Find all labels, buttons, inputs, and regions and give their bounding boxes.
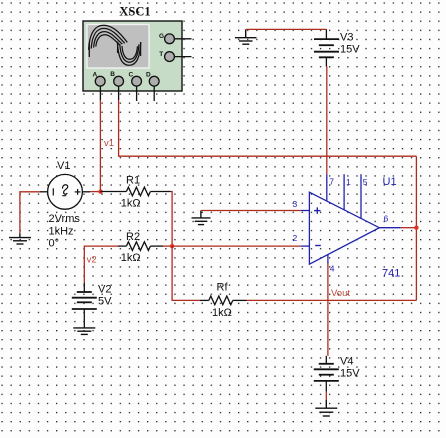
op-amp pin number 4: [330, 264, 335, 274]
svg-text:1kΩ: 1kΩ: [212, 307, 232, 319]
svg-text:T: T: [159, 51, 163, 58]
svg-text:5: 5: [363, 177, 368, 187]
wire: R2 right to junction: [163, 245, 172, 247]
resistor R1: [101, 187, 171, 196]
oscilloscope terminal D: [146, 71, 159, 86]
svg-text:741: 741: [382, 268, 400, 280]
ground (V4): [315, 400, 337, 416]
net label v2: [87, 255, 97, 266]
oscilloscope screen waveforms: [89, 25, 141, 65]
op-amp pin number 5: [363, 177, 368, 187]
svg-text:V3: V3: [340, 32, 353, 44]
V3 reference label: [340, 32, 353, 44]
wire: Rf right to output: [247, 299, 417, 301]
V3 value label: [340, 44, 360, 56]
svg-text:C: C: [129, 71, 134, 78]
stub wire from terminal A: [99, 86, 101, 100]
svg-text:Vout: Vout: [331, 288, 350, 299]
ground (non-inverting input): [192, 211, 211, 225]
wire: output right vertical: [415, 156, 417, 300]
svg-text:V2: V2: [98, 284, 111, 296]
op-amp pin number 6: [384, 214, 389, 224]
battery V3: [314, 29, 339, 66]
oscilloscope XSC1 body: [83, 21, 182, 91]
wire: V1 minus to ground: [20, 192, 40, 234]
wire: op-amp pin 6 to output node: [401, 227, 417, 229]
oscilloscope XSC1 label: [119, 5, 150, 19]
junction node inverting input: [170, 244, 174, 248]
svg-text:1kΩ: 1kΩ: [121, 198, 141, 210]
svg-text:A: A: [93, 72, 98, 79]
svg-text:1: 1: [346, 177, 351, 187]
wire: node v2 up and right to R2: [84, 246, 118, 283]
wire: ground to V3 top: [246, 28, 327, 30]
svg-text:4: 4: [330, 264, 335, 274]
wire: V3 down to op-amp pin 7: [326, 67, 328, 175]
ground (V1): [9, 234, 31, 244]
oscilloscope screen: [87, 25, 149, 69]
wire: V1 plus to node v1: [90, 191, 100, 193]
svg-text:2: 2: [293, 233, 298, 243]
svg-text:v2: v2: [87, 255, 97, 266]
wire: op-amp pin 4 down to V4: [327, 264, 329, 356]
net label Vout: [331, 288, 350, 299]
svg-text:D: D: [146, 71, 151, 78]
oscilloscope terminal B: [110, 71, 123, 86]
ground (V2): [73, 328, 95, 335]
Rf value label: [212, 307, 232, 319]
R1 reference label: [126, 175, 140, 187]
V4 value label: [340, 368, 360, 380]
V1 value labels: [49, 213, 81, 250]
op-amp pin number 2: [293, 233, 298, 243]
wire: ground to op-amp pin 3: [201, 210, 301, 212]
svg-text:5V: 5V: [98, 296, 112, 308]
svg-text:R1: R1: [126, 175, 140, 187]
svg-text:R2: R2: [126, 231, 140, 243]
ground (top, V3): [235, 29, 257, 44]
U1 part label 741: [382, 268, 400, 280]
stub wire from terminal C: [136, 86, 138, 101]
oscilloscope terminal A: [93, 72, 106, 87]
wire: V4 bottom to ground: [325, 392, 327, 401]
Rf reference label: [217, 282, 229, 294]
wire: scope channel A down to node v1: [99, 100, 101, 192]
svg-text:G: G: [159, 33, 164, 40]
op-amp pin number 7: [329, 177, 334, 187]
resistor R2: [118, 242, 163, 251]
junction node output: [414, 226, 418, 230]
wire: V2 bottom to ground: [83, 319, 85, 328]
op-amp pin number 1: [346, 177, 351, 187]
V2 value label: [98, 296, 112, 308]
svg-text:B: B: [110, 71, 115, 78]
V4 reference label: [340, 356, 353, 368]
svg-text:7: 7: [329, 177, 334, 187]
R2 reference label: [126, 231, 140, 243]
svg-text:XSC1: XSC1: [119, 5, 150, 19]
stub wire from terminal B: [118, 86, 120, 100]
junction node v1: [98, 189, 102, 193]
svg-text:V4: V4: [340, 356, 353, 368]
svg-text:Rf: Rf: [217, 282, 229, 294]
AC source V1: [40, 174, 90, 209]
V2 reference label: [98, 284, 111, 296]
stub wire from terminal T: [175, 56, 192, 58]
oscilloscope terminal T: [159, 51, 174, 61]
svg-text:V1: V1: [57, 160, 70, 172]
svg-text:3: 3: [293, 199, 298, 209]
svg-text:1kHz: 1kHz: [49, 226, 74, 238]
V1 reference label: [57, 160, 70, 172]
svg-text:0°: 0°: [49, 238, 60, 250]
battery V4: [314, 356, 339, 392]
svg-text:2Vrms: 2Vrms: [49, 213, 81, 225]
battery V2: [72, 283, 97, 319]
oscilloscope terminal C: [129, 71, 142, 86]
wire: junction to op-amp pin 2: [172, 245, 301, 247]
U1 reference label: [383, 176, 397, 188]
svg-text:v1: v1: [104, 138, 114, 149]
svg-text:U1: U1: [383, 176, 397, 188]
stub wire from terminal G: [175, 38, 192, 40]
wire: junction down to Rf: [172, 246, 200, 300]
op-amp U1: [301, 174, 401, 264]
wire: R1 right down to inverting node: [171, 192, 172, 247]
R2 value label: [121, 252, 141, 264]
svg-text:15V: 15V: [340, 44, 360, 56]
op-amp pin number 3: [293, 199, 298, 209]
svg-text:1kΩ: 1kΩ: [121, 252, 141, 264]
resistor Rf: [200, 296, 247, 305]
R1 value label: [121, 198, 141, 210]
stub wire from terminal D: [153, 86, 155, 101]
wire: scope channel B down and across to output: [119, 100, 417, 156]
oscilloscope terminal G: [159, 33, 174, 43]
svg-text:15V: 15V: [340, 368, 360, 380]
net label v1: [104, 138, 114, 149]
svg-text:6: 6: [384, 214, 389, 224]
